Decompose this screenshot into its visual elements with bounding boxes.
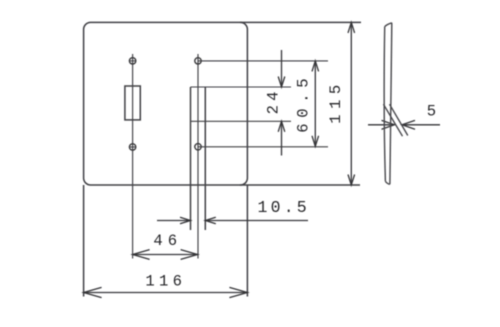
dim line 10.5 left segment — [157, 220, 191, 222]
arrow 115 top — [348, 22, 355, 33]
dim line 24 lower segment — [281, 121, 283, 155]
cord cutout right edge — [204, 87, 206, 230]
toggle slot — [125, 86, 140, 120]
left edge extension down (116 dim) — [83, 185, 85, 297]
hole extension line top (60.5 dim) — [198, 60, 328, 62]
arrow 115 bottom — [348, 175, 355, 186]
top edge extension line (115 dim) — [240, 21, 361, 23]
arrow 5 left — [382, 120, 395, 129]
plate outline (front view) — [84, 22, 248, 185]
arrow 116 right — [229, 287, 247, 297]
arrow 24 top — [278, 77, 285, 88]
screw hole bottom-right — [195, 144, 201, 150]
arrow 116 left — [84, 287, 102, 297]
side profile left edge — [384, 27, 385, 182]
dim line 10.5 right segment — [205, 220, 308, 222]
cutout bottom edge + extension (24 dim) — [191, 120, 292, 122]
dim line 60.5 — [314, 61, 316, 146]
arrow 46 right — [181, 250, 198, 260]
screw hole bottom-left — [129, 144, 135, 150]
dim line 115 — [350, 22, 352, 185]
right centerline — [197, 54, 199, 259]
left centerline — [132, 54, 134, 259]
arrow 24 bottom — [278, 121, 285, 132]
side profile top cap — [385, 23, 392, 27]
oblique stroke 2 (5 dim) — [390, 104, 408, 135]
screw hole top-right — [195, 58, 201, 64]
svg-text:46: 46 — [153, 232, 182, 250]
side view — [383, 23, 407, 185]
svg-text:115: 115 — [327, 79, 345, 123]
dim line 24 upper segment — [281, 50, 283, 87]
right edge extension down (116 dim) — [246, 185, 248, 297]
arrow 10.5 left — [180, 217, 191, 224]
dim line 116 — [84, 292, 248, 294]
svg-text:116: 116 — [145, 272, 186, 290]
hole center tick bottom-left — [129, 146, 136, 148]
arrow 60.5 top — [312, 61, 319, 72]
side profile right edge — [390, 23, 392, 185]
arrow 5 right — [402, 120, 415, 129]
screw hole top-left — [129, 58, 135, 64]
arrow 46 left — [133, 250, 150, 260]
hole center tick top-left — [129, 60, 136, 62]
svg-text:60.5: 60.5 — [295, 73, 313, 133]
hole extension line bottom (60.5 dim) — [198, 146, 328, 148]
cutout top edge + extension (24 dim) — [191, 86, 292, 88]
arrow 60.5 bottom — [312, 136, 319, 147]
dim line 5 left segment — [368, 124, 395, 126]
dim line 46 — [133, 254, 198, 256]
cord cutout left edge — [190, 87, 192, 230]
dim line 5 right segment — [402, 124, 440, 126]
svg-text:5: 5 — [427, 103, 436, 121]
oblique stroke 1 (5 dim) — [383, 104, 402, 136]
bottom edge extension line (115 dim) — [240, 184, 360, 186]
svg-text:10.5: 10.5 — [258, 198, 310, 217]
arrow 10.5 right — [205, 217, 216, 224]
svg-text:24: 24 — [264, 87, 282, 114]
side profile bottom cap — [385, 181, 390, 184]
